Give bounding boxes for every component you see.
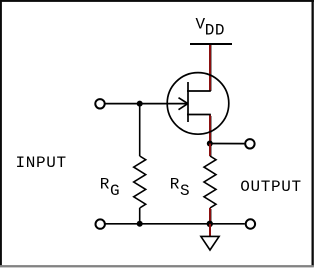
junction node RG / rail	[137, 221, 143, 227]
svg-text:S: S	[180, 182, 190, 200]
junction node gate / RG	[137, 101, 143, 107]
wire rail to ground symbol	[209, 224, 211, 237]
svg-text:G: G	[110, 182, 120, 200]
wire RG to ground rail	[139, 208, 141, 224]
resistor RS	[204, 156, 216, 208]
junction node RS / rail / ground	[207, 221, 213, 227]
wire source to output node	[209, 115, 211, 144]
wire gate node to RG	[139, 104, 141, 156]
svg-text:DD: DD	[205, 22, 225, 40]
junction node source / output	[207, 141, 213, 147]
wire output node to RS	[209, 144, 211, 157]
wire RS to rail	[209, 208, 211, 224]
ground rail wire	[106, 223, 245, 225]
input terminal	[95, 99, 104, 108]
output-side rail terminal	[246, 219, 255, 228]
resistor RG	[134, 156, 146, 208]
wire input to gate	[106, 103, 168, 105]
svg-text:OUTPUT: OUTPUT	[240, 178, 302, 196]
transistor Q1 (JFET)	[167, 73, 229, 135]
wire output	[210, 143, 244, 145]
power rail VDD bar	[190, 43, 232, 45]
svg-text:R: R	[170, 176, 180, 194]
wire VDD to drain	[209, 45, 211, 91]
svg-text:INPUT: INPUT	[16, 154, 67, 172]
ground symbol	[201, 236, 219, 250]
output terminal	[245, 139, 254, 148]
svg-text:R: R	[100, 176, 110, 194]
input-side rail terminal	[96, 219, 105, 228]
